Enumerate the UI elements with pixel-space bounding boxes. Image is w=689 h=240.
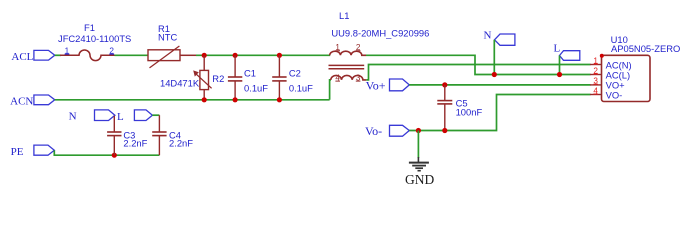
port PE (11, 145, 55, 158)
junction on ACL rail at C1 (233, 53, 238, 58)
pin 1 marker dot (600, 54, 604, 58)
port Vo- (365, 124, 409, 138)
capacitor C5 (437, 85, 482, 131)
wire Vo+ to VO+ pin 3 (409, 84, 590, 86)
capacitor C3 (107, 116, 148, 155)
port L (top) (554, 43, 580, 61)
svg-text:C2: C2 (289, 67, 301, 78)
svg-text:GND: GND (405, 172, 434, 187)
capacitor C1 (228, 55, 268, 100)
wire L port to C4 (152, 114, 159, 116)
svg-text:ACN: ACN (10, 96, 33, 108)
svg-text:PE: PE (11, 146, 24, 158)
pin 2 AC(L) (590, 74, 602, 76)
junction L on AC(L) wire (557, 72, 562, 77)
capacitor C2 (272, 55, 313, 100)
junction GND drop (416, 128, 421, 133)
varistor R2 14D471K (160, 55, 224, 100)
svg-text:2.2nF: 2.2nF (123, 138, 147, 149)
junction on ACN rail at C1 (233, 97, 238, 102)
junction on ACN rail at C2 (277, 97, 282, 102)
port N (top) (484, 30, 515, 46)
svg-text:NTC: NTC (158, 31, 177, 42)
svg-text:14D471K: 14D471K (160, 78, 200, 89)
port ACL (11, 50, 54, 63)
pin 3 VO+ (590, 84, 602, 86)
core (329, 64, 365, 66)
svg-text:100nF: 100nF (456, 107, 483, 118)
ground (405, 131, 434, 188)
junction C5 bottom (442, 128, 447, 133)
IC U10 AP05N05-ZERO (590, 34, 680, 102)
wire L port down to AC(L) net (559, 56, 561, 75)
wire ACL to fuse (55, 54, 61, 56)
wire choke top output to AC(L) pin 2 (366, 55, 591, 74)
svg-text:R2: R2 (212, 73, 224, 84)
svg-text:JFC2410-1100TS: JFC2410-1100TS (58, 33, 131, 44)
capacitor C4 (152, 115, 193, 155)
wire fuse to R1 (115, 54, 149, 56)
svg-text:2.2nF: 2.2nF (169, 138, 193, 149)
junction N on AC(L) wire (492, 72, 497, 77)
svg-text:Vo-: Vo- (365, 124, 382, 138)
port N (mid) (69, 110, 115, 123)
wire ACN rail (55, 99, 330, 101)
junction C3 on PE rail (112, 153, 117, 158)
svg-text:0.1uF: 0.1uF (244, 83, 268, 94)
thermistor R1 NTC (148, 23, 196, 68)
svg-text:ACL: ACL (11, 51, 33, 63)
junction on ACN rail at R2 (202, 97, 207, 102)
junction C5 top (442, 82, 447, 87)
top winding (330, 51, 366, 55)
svg-text:UU9.8-20MH_C920996: UU9.8-20MH_C920996 (331, 28, 429, 39)
svg-text:L: L (117, 111, 124, 123)
wire N port down to AC(L) net (493, 40, 495, 75)
svg-text:C1: C1 (244, 67, 256, 78)
junction on ACL rail at R2 (202, 53, 207, 58)
wire ACN rail up to choke bottom winding (330, 80, 331, 100)
wire choke bottom output to AC(N) pin 1 (366, 65, 590, 80)
bottom winding (331, 75, 367, 80)
common-mode choke L1 (329, 10, 430, 82)
svg-text:L1: L1 (339, 10, 349, 21)
port L (mid) (117, 110, 152, 123)
junction on ACL rail at C2 (277, 53, 282, 58)
wire PE rail (54, 150, 159, 155)
wire Vo- to VO- pin 4 (409, 95, 590, 131)
port Vo+ (366, 79, 410, 93)
svg-text:0.1uF: 0.1uF (289, 83, 313, 94)
svg-text:F1: F1 (84, 22, 95, 33)
port ACN (10, 95, 55, 108)
pin 4 VO- (590, 94, 602, 96)
svg-text:VO-: VO- (606, 89, 623, 100)
wire R1 to choke (ACL rail) (196, 54, 330, 56)
svg-text:N: N (69, 111, 77, 123)
svg-text:L: L (554, 43, 561, 55)
fuse F1 (58, 22, 148, 60)
svg-text:AP05N05-ZERO: AP05N05-ZERO (611, 43, 680, 54)
svg-text:Vo+: Vo+ (366, 79, 386, 93)
svg-text:N: N (484, 30, 492, 42)
pin 1 AC(N) (590, 64, 602, 66)
